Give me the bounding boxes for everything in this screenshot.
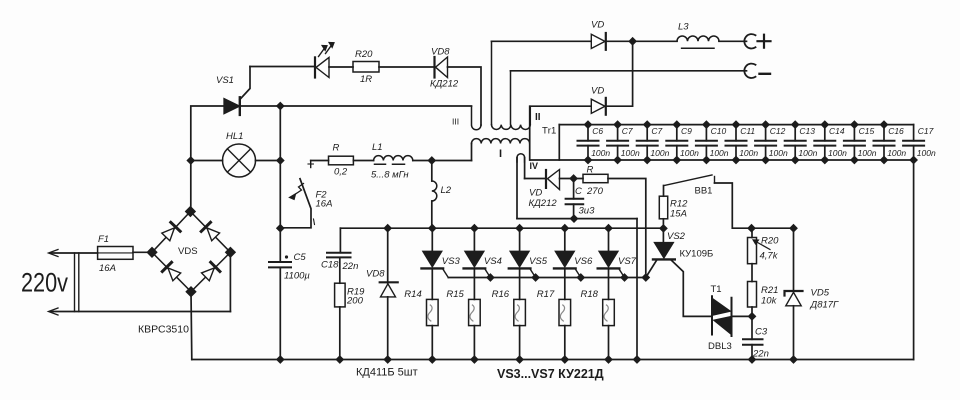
node VS4 anode [471, 225, 477, 231]
svg-text:220v: 220v [21, 268, 68, 298]
fuse F1 [98, 247, 133, 260]
ground rail [192, 359, 914, 361]
svg-text:L3: L3 [678, 22, 689, 33]
svg-text:100n: 100n [887, 148, 906, 158]
LED arrows [319, 45, 333, 57]
svg-text:16A: 16A [99, 263, 116, 274]
capacitor C6 [587, 125, 589, 160]
svg-text:T1: T1 [711, 284, 722, 295]
svg-text:C3: C3 [755, 327, 768, 338]
svg-text:VS3...VS7 КУ221Д: VS3...VS7 КУ221Д [497, 367, 604, 381]
svg-text:100n: 100n [710, 148, 729, 158]
svg-text:VS2: VS2 [667, 231, 686, 242]
svg-text:C7: C7 [651, 126, 662, 136]
resistor R16 [514, 299, 526, 325]
svg-text:R17: R17 [537, 289, 555, 300]
svg-text:0,2: 0,2 [334, 167, 348, 178]
svg-text:C14: C14 [829, 126, 845, 136]
node bridge bottom [187, 287, 196, 296]
node VD5 top [790, 225, 796, 231]
svg-text:VS1: VS1 [216, 75, 234, 86]
node VD8 top [385, 225, 391, 231]
svg-text:R20: R20 [761, 236, 779, 247]
bridge rectifier VDS [152, 212, 230, 292]
capacitor C14 [824, 125, 826, 160]
svg-text:II: II [535, 112, 541, 123]
wire BB1 to divider [715, 183, 794, 228]
resistor R19 [335, 283, 346, 307]
diode VD8 [433, 57, 435, 78]
wire VS1 gate riser [240, 67, 250, 100]
transformer winding IV [517, 154, 525, 162]
svg-text:200: 200 [346, 296, 364, 307]
wire II bottom to rect diode 2 [530, 105, 591, 107]
svg-text:VS6: VS6 [574, 256, 593, 267]
capacitor C18 column [339, 228, 341, 253]
resistor R20 (LED) [353, 62, 379, 73]
wire R19 to rail [339, 307, 341, 360]
switch F2 blade [284, 179, 312, 228]
svg-text:100n: 100n [650, 148, 669, 158]
wire x637 drop to rail [636, 219, 638, 360]
wire main bus x280 column [279, 106, 281, 262]
wire VD to R270 [560, 178, 584, 180]
wire winding IV left lead down [516, 158, 518, 219]
capacitor C16 [883, 125, 885, 160]
svg-text:100n: 100n [680, 148, 699, 158]
bridge diode top-left [161, 222, 180, 241]
capacitor C7 [646, 125, 648, 160]
switch F2 contact [310, 161, 312, 168]
node gate bus 535.6 [532, 274, 538, 280]
svg-text:100n: 100n [828, 148, 847, 158]
wire winding I right lead to cap rail [529, 106, 531, 160]
svg-text:DBL3: DBL3 [708, 341, 732, 352]
transformer winding III [472, 107, 482, 130]
node VS6 anode [562, 225, 568, 231]
gate diode VD KD212 [525, 178, 546, 180]
terminal plus [744, 34, 755, 48]
node VS5 anode [516, 225, 522, 231]
wire R20 to VD8 [379, 66, 435, 68]
svg-text:4,7k: 4,7k [760, 251, 779, 262]
inductor L3 [677, 36, 719, 41]
wire IV return [517, 218, 637, 220]
svg-text:VD8: VD8 [431, 47, 450, 58]
svg-text:270: 270 [586, 186, 604, 197]
wire VS2 cathode to gate bus [646, 260, 657, 277]
capacitor C9 [676, 125, 678, 160]
wire bridge right to AC bottom [229, 252, 231, 311]
wire HL1 right [256, 160, 281, 162]
svg-text:C18: C18 [321, 259, 339, 270]
diode VD8 (KD411) [387, 228, 389, 283]
node VS1 out [277, 103, 283, 109]
anode bus [340, 227, 663, 229]
node R17 rail [562, 356, 568, 362]
svg-text:C15: C15 [859, 126, 875, 136]
capacitor C17 [903, 141, 924, 146]
node gate bus 490.4 [487, 274, 493, 280]
wire F1 to bridge [133, 251, 152, 253]
svg-text:КД212: КД212 [430, 79, 459, 90]
capacitor C7 [617, 125, 619, 160]
bridge diode bottom-left [162, 262, 181, 281]
wire R270 to gate bus [608, 179, 646, 278]
node bus end [660, 225, 666, 231]
svg-text:C7: C7 [622, 126, 633, 136]
wire L3 to plus terminal [719, 40, 747, 42]
svg-text:VD: VD [529, 188, 542, 199]
zener VD5 [793, 228, 795, 291]
capacitor C 3u3 [573, 179, 575, 199]
svg-text:1100µ: 1100µ [284, 271, 310, 282]
svg-text:ВВ1: ВВ1 [695, 186, 713, 197]
node gate bus 580.8 [578, 274, 584, 280]
node VS3 anode [429, 225, 435, 231]
svg-text:VDS: VDS [178, 246, 198, 257]
thyristor VS4 [473, 228, 475, 251]
resistor R17 [559, 299, 571, 325]
wire L1 to transformer [413, 160, 472, 162]
svg-text:C5: C5 [294, 252, 307, 263]
wire winding I left lead [471, 144, 473, 161]
svg-text:IV: IV [530, 161, 539, 171]
node 3u3 bottom [571, 215, 577, 221]
node bridge left [148, 248, 157, 257]
wire AC bottom 220v [50, 311, 230, 313]
wire R20 to R21 [751, 264, 753, 282]
svg-text:C10: C10 [711, 126, 727, 136]
svg-text:R16: R16 [492, 289, 510, 300]
svg-text:VD5: VD5 [811, 288, 830, 299]
capacitor C3 [751, 316, 753, 339]
node HL1 left [188, 157, 194, 163]
node rail x637 [634, 356, 640, 362]
svg-text:R14: R14 [404, 289, 421, 300]
thyristor VS1 [224, 99, 240, 114]
svg-text:C12: C12 [770, 126, 786, 136]
svg-text:100n: 100n [591, 148, 610, 158]
wire HL1 left [191, 160, 223, 162]
capacitor C12 [765, 125, 767, 160]
node C 3u3 top [570, 175, 576, 181]
wire VS1 cathode [240, 105, 472, 107]
svg-text:VS7: VS7 [618, 256, 637, 267]
svg-text:VD8: VD8 [366, 269, 385, 280]
svg-text:L2: L2 [441, 185, 452, 196]
resistor R 0.2 [329, 156, 354, 165]
capacitor C5 [269, 262, 291, 267]
node L2 tap [429, 157, 435, 163]
node rail VD8 [385, 356, 391, 362]
wire winding IV right lead [524, 158, 526, 179]
node bridge right [226, 248, 235, 257]
wire VD8 to winding III [448, 67, 482, 125]
thyristor VS2 [662, 229, 664, 243]
svg-text:F1: F1 [98, 234, 109, 245]
switch F2 arrow [294, 184, 304, 196]
capacitor C11 [735, 125, 737, 160]
svg-text:5...8 мГн: 5...8 мГн [371, 170, 409, 181]
svg-text:VS3: VS3 [442, 256, 461, 267]
capacitor bank bottom rail / transformer line [530, 159, 913, 161]
diac T1 [712, 296, 732, 336]
svg-text:КД212: КД212 [529, 198, 558, 209]
svg-text:C9: C9 [681, 126, 692, 136]
svg-text:R: R [333, 143, 340, 154]
LED indicator [314, 57, 316, 77]
svg-text:100n: 100n [739, 148, 758, 158]
svg-text:100n: 100n [621, 148, 640, 158]
thyristor VS5 [519, 228, 521, 251]
wire bridge top to VS1 anode [191, 106, 224, 212]
svg-text:3u3: 3u3 [579, 206, 596, 217]
node rail C5 [277, 356, 283, 362]
svg-text:VS4: VS4 [484, 256, 502, 267]
node rail C3 [749, 356, 755, 362]
inductor L1 [374, 156, 413, 161]
svg-text:III: III [452, 117, 459, 127]
wire VD bottom out, riser [606, 41, 633, 106]
thyristor VS6 [564, 228, 566, 251]
capacitor C13 [794, 125, 796, 160]
resistor R12 [663, 186, 665, 197]
wire gate bus [448, 277, 646, 279]
svg-text:22n: 22n [342, 261, 359, 272]
inductor L2 [432, 181, 437, 201]
capacitor bank top rail [559, 124, 913, 126]
svg-text:I: I [499, 148, 502, 160]
svg-text:100n: 100n [798, 148, 817, 158]
wire F2 to R [311, 160, 329, 162]
node gate bus 645.8 [643, 274, 649, 280]
wire R12 to bus [662, 219, 664, 229]
wire bridge bottom to ground rail [190, 292, 193, 360]
svg-text:15A: 15A [670, 209, 687, 220]
svg-text:R21: R21 [761, 285, 778, 296]
node VD join [629, 38, 635, 44]
label C5 plus mark [285, 255, 288, 258]
wire VS2 gate to T1 [672, 260, 713, 316]
svg-text:C6: C6 [592, 126, 603, 136]
node rail R19 [337, 356, 343, 362]
resistor R14 [427, 299, 439, 325]
node R18 rail [605, 356, 611, 362]
wire L2 drop [431, 161, 433, 182]
node R15 rail [471, 356, 477, 362]
resistor R20 (4.7k) [751, 228, 753, 237]
wire II centre tap to minus [511, 70, 747, 72]
svg-text:100n: 100n [917, 148, 936, 158]
svg-text:КД411Б 5шт: КД411Б 5шт [356, 367, 418, 379]
resistor R 270 [583, 174, 608, 182]
svg-text:R20: R20 [355, 49, 373, 60]
node bus280 [277, 225, 283, 231]
bridge diode top-right [201, 222, 220, 241]
rectifier diode VD (bottom) [591, 99, 605, 113]
wire VD top out [606, 40, 677, 42]
wire right edge riser C17 [913, 125, 915, 360]
rectifier diode VD (top) [591, 34, 605, 48]
svg-text:1R: 1R [360, 74, 372, 85]
node R20 top [748, 225, 754, 231]
wire R21 to junction [751, 307, 753, 316]
svg-text:R: R [587, 165, 594, 176]
svg-text:КУ109Б: КУ109Б [680, 249, 714, 260]
wire II top to rect diode 1 [492, 40, 592, 42]
capacitor bank left drop [558, 125, 560, 160]
svg-text:L1: L1 [372, 142, 383, 153]
cable bars 220v [75, 253, 79, 312]
node VS7 anode [605, 225, 611, 231]
trimmer arrow R20 [754, 241, 770, 250]
svg-text:C: C [575, 186, 582, 197]
switch BB1 blade [664, 175, 712, 186]
node R14 rail [429, 356, 435, 362]
resistor R15 [469, 299, 481, 325]
transformer winding I [472, 139, 530, 144]
svg-text:C11: C11 [740, 126, 755, 136]
thyristor VS7 [608, 228, 610, 251]
svg-text:C13: C13 [799, 126, 815, 136]
svg-text:VD: VD [591, 86, 604, 97]
svg-text:Д817Г: Д817Г [810, 300, 840, 311]
wire T1 to R21 junction [732, 315, 753, 317]
thyristor VS3 [431, 228, 433, 251]
capacitor C15 [853, 125, 855, 160]
capacitor C10 [705, 125, 707, 160]
svg-text:R15: R15 [446, 289, 464, 300]
svg-text:C17: C17 [918, 126, 934, 136]
node rail VD5 [790, 356, 796, 362]
svg-text:HL1: HL1 [226, 131, 243, 142]
svg-text:100n: 100n [858, 148, 877, 158]
node bridge top [186, 207, 195, 216]
svg-text:VD: VD [591, 20, 604, 31]
node R16 rail [516, 356, 522, 362]
bridge diode bottom-right [201, 262, 220, 281]
svg-text:Тr1: Тr1 [542, 126, 556, 137]
node gate bus 624.5 [621, 274, 627, 280]
wire LED to R20 [329, 66, 353, 68]
transformer winding II [492, 41, 531, 124]
lamp HL1 [223, 144, 256, 177]
node HL1 right [277, 157, 283, 163]
svg-text:10k: 10k [761, 296, 778, 307]
svg-text:VS5: VS5 [529, 256, 548, 267]
svg-text:100n: 100n [769, 148, 788, 158]
wire L2 to bus [431, 201, 433, 228]
svg-text:C16: C16 [888, 126, 904, 136]
resistor R18 [603, 299, 615, 325]
svg-text:R18: R18 [581, 289, 599, 300]
wire R to L1 [353, 160, 373, 162]
terminal minus [744, 64, 755, 78]
svg-text:КВРС3510: КВРС3510 [138, 324, 189, 336]
wire AC top 220v [50, 252, 98, 254]
node T1 R21 C3 [749, 313, 755, 319]
wire gate to LED [250, 66, 315, 68]
resistor R21 [748, 282, 757, 308]
svg-text:16A: 16A [316, 199, 333, 210]
